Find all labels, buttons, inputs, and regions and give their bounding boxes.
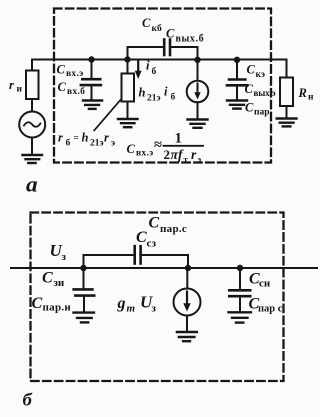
label C_кб xyxy=(142,16,162,34)
label h_21э i_б xyxy=(139,85,176,104)
ground under C_зи xyxy=(74,313,95,323)
svg-text:пар.и: пар.и xyxy=(43,301,72,313)
svg-text:C: C xyxy=(245,82,254,96)
label C_зи xyxy=(42,270,65,289)
svg-text:б: б xyxy=(23,390,33,410)
svg-text:21э: 21э xyxy=(147,93,161,103)
wire: current source to ground xyxy=(197,102,199,119)
label r_и xyxy=(9,78,23,95)
node 4 xyxy=(234,57,240,63)
svg-text:зи: зи xyxy=(54,277,65,289)
wire: C_зи to ground xyxy=(83,296,85,312)
label C_вх.э xyxy=(57,63,84,79)
svg-text:пар с: пар с xyxy=(258,303,283,314)
svg-text:вых.э: вых.э xyxy=(254,88,276,98)
svg-text:C: C xyxy=(149,215,160,232)
wire: bus to r_и resistor xyxy=(31,60,33,71)
label C_пар с xyxy=(249,296,283,315)
ground under C_вх xyxy=(83,101,102,109)
wire: r_и to source G1 xyxy=(31,99,33,112)
label C_си xyxy=(249,271,271,290)
svg-text:1: 1 xyxy=(175,131,183,147)
svg-text:э: э xyxy=(111,138,115,148)
svg-text:кб: кб xyxy=(152,23,163,34)
capacitor C_кб / C_вых.б xyxy=(164,40,170,56)
label C_кэ xyxy=(247,63,265,80)
svg-text:а: а xyxy=(26,172,38,196)
ground under source G1 xyxy=(23,155,43,163)
svg-text:21э: 21э xyxy=(90,138,104,148)
svg-text:C: C xyxy=(127,142,136,156)
node B3 xyxy=(237,265,243,271)
svg-text:m: m xyxy=(127,302,136,314)
svg-text:б: б xyxy=(171,92,176,103)
capacitor C_зи / C_пар.и xyxy=(74,289,95,295)
svg-text:i: i xyxy=(146,59,150,73)
svg-text:2: 2 xyxy=(164,147,171,162)
svg-text:вх.э: вх.э xyxy=(66,69,84,79)
node 2 xyxy=(124,56,130,62)
ground under current source b xyxy=(177,332,197,341)
svg-text:вых.б: вых.б xyxy=(176,33,205,44)
label C_вых.б xyxy=(166,26,204,44)
arrow i_б (base current) xyxy=(135,60,142,79)
svg-text:б: б xyxy=(66,137,71,148)
ground under R_н xyxy=(277,119,297,127)
formula C_вх.э ≈ 1/(2πf_т r_э) xyxy=(127,131,202,165)
label C_пар.и xyxy=(32,295,72,313)
node B1 xyxy=(80,265,86,271)
wire: node 2 down to h21э resistor xyxy=(127,60,129,74)
capacitor C_кэ / C_вых.э / C_пар xyxy=(227,80,247,86)
current source g_m·U_з xyxy=(174,289,201,316)
svg-text:r: r xyxy=(104,130,109,144)
node 1 xyxy=(88,56,94,62)
fraction bar xyxy=(164,145,204,147)
svg-text:C: C xyxy=(42,270,53,287)
svg-text:r: r xyxy=(58,130,63,144)
label C_вых.э xyxy=(245,82,276,98)
dashed boundary box b xyxy=(31,213,284,382)
svg-text:з: з xyxy=(152,302,157,314)
label U_з xyxy=(50,241,67,263)
wire: bus a to R_н xyxy=(286,60,288,78)
svg-text:≈: ≈ xyxy=(154,137,162,153)
wire: bypass up from node 2 to C_кб xyxy=(128,47,164,60)
label r_б = h_21э r_э xyxy=(58,130,115,148)
svg-text:н: н xyxy=(308,93,314,103)
label i_б xyxy=(146,59,157,77)
wire: node 4 down to C_кэ xyxy=(236,60,238,79)
svg-text:си: си xyxy=(259,278,271,290)
label R_н xyxy=(298,86,315,103)
svg-text:сз: сз xyxy=(147,237,157,249)
wire: current source b to ground xyxy=(186,316,188,332)
svg-text:вх.б: вх.б xyxy=(67,86,85,97)
current source h21э·iб xyxy=(187,81,209,103)
resistor r_и xyxy=(26,71,39,100)
svg-text:i: i xyxy=(164,85,168,99)
wire: bypass up from node B1 to C_сз xyxy=(84,255,135,268)
svg-text:C: C xyxy=(166,26,175,40)
svg-text:кэ: кэ xyxy=(256,70,265,80)
wire: R_н to ground xyxy=(286,106,288,118)
svg-text:э: э xyxy=(198,154,202,164)
resistor R_н xyxy=(280,78,293,107)
svg-text:C: C xyxy=(32,295,43,312)
svg-text:h: h xyxy=(139,85,146,99)
ground under h21э resistor xyxy=(118,119,138,127)
svg-text:g: g xyxy=(117,295,126,312)
svg-text:r: r xyxy=(191,147,197,162)
ground under current source a xyxy=(188,120,208,128)
wire: C_си to ground xyxy=(239,296,241,312)
svg-text:вх.э: вх.э xyxy=(136,148,154,158)
wire: C_сз down to node B2 xyxy=(141,255,188,268)
svg-text:R: R xyxy=(298,86,307,100)
ground under C_си xyxy=(229,312,252,322)
label а (part marker) xyxy=(26,172,38,196)
resistor r_б = h_21э r_э xyxy=(122,74,135,102)
wire: source G1 to ground xyxy=(31,138,33,155)
svg-text:пар.с: пар.с xyxy=(160,223,187,235)
label C_сз xyxy=(136,229,157,249)
wire: node 3 down to current source xyxy=(197,60,199,81)
svg-text:C: C xyxy=(57,63,66,77)
label C_пар.с xyxy=(149,215,188,235)
svg-text:r: r xyxy=(9,78,14,92)
wire: node B2 down to current source b xyxy=(186,268,188,289)
label C_пар xyxy=(245,101,270,118)
wire: C_кэ to ground xyxy=(236,85,238,100)
label C_вх.б xyxy=(58,80,86,97)
capacitor C_сз xyxy=(135,246,141,263)
wire: main horizontal bus b xyxy=(11,267,317,269)
svg-text:и: и xyxy=(17,85,23,95)
wire: main horizontal bus a xyxy=(32,59,287,61)
capacitor C_вх (C_вх.э / C_вх.б) xyxy=(81,79,101,85)
node 3 xyxy=(194,57,200,63)
svg-text:б: б xyxy=(152,66,157,77)
wire: node B1 down to C_зи xyxy=(83,268,85,289)
svg-text:=: = xyxy=(74,133,79,143)
wire: C_вх to ground xyxy=(91,85,93,100)
svg-text:з: з xyxy=(62,251,67,263)
dashed boundary box a xyxy=(54,9,271,163)
wire: h21э resistor to ground xyxy=(127,102,129,119)
wire: node B3 down to C_си xyxy=(239,268,241,290)
svg-text:C: C xyxy=(245,101,254,115)
wire: node 1 down to C_вх xyxy=(91,60,93,79)
callout line to r_б resistor xyxy=(94,99,121,130)
svg-text:C: C xyxy=(58,80,67,94)
svg-text:h: h xyxy=(82,130,89,144)
wire: bypass from C_кб down to node 3 xyxy=(170,47,198,60)
capacitor C_си / C_пар.с xyxy=(229,290,250,296)
svg-text:пар: пар xyxy=(254,107,270,117)
label g_m U_з xyxy=(117,292,157,314)
source G1 (sine generator) xyxy=(19,112,45,138)
svg-text:C: C xyxy=(136,229,147,246)
svg-text:C: C xyxy=(142,16,151,30)
node B2 xyxy=(185,265,191,271)
svg-text:C: C xyxy=(247,63,256,77)
ground under C_кэ xyxy=(227,101,247,109)
label б (part marker) xyxy=(23,390,33,410)
